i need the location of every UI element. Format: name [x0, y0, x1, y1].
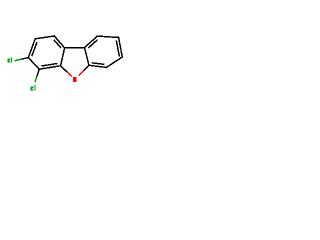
wire bond C2-C3 left ring top edge: [35, 36, 54, 39]
wire bond C5-Cl carbon half (black): [37, 69, 39, 76]
wire bond C4b-O carbon half (black): [61, 66, 67, 72]
wire bond C8=C9 inner double-bond line: [116, 40, 119, 56]
wire bond C10a-C6a right ring left edge: [85, 48, 89, 66]
wire bond C3=C4a inner double-bond line: [54, 40, 61, 48]
wire bond C6a-C7 right ring upper-left edge (outer line of double bond): [85, 36, 98, 48]
wire bond C10=C10a inner double-bond line: [92, 63, 105, 65]
wire bond C1-C2 left ring upper-left edge (outer line of double bond): [28, 39, 35, 58]
wire bond C4a-C4b left ring right edge: [61, 48, 65, 66]
wire bond C4b-C5 left ring bottom edge (outer line of double bond): [39, 66, 60, 69]
node O furan oxygen atom label (solid red blob): [73, 77, 77, 82]
wire bond C5-Cl chlorine half (green): [35, 77, 37, 82]
wire bond C1-Cl carbon half (black): [21, 58, 28, 60]
node Cl chlorine atom label on C1 (left), letter C: [7, 59, 10, 63]
wire bond C4a-C6a biaryl bond (furan ring top edge): [65, 47, 85, 49]
wire bond C5-C1 left ring lower-left edge: [28, 58, 39, 70]
wire bond C6a=C7 inner double-bond line: [88, 40, 97, 48]
wire bond C8-C9 right ring right edge (outer line of double bond): [119, 38, 123, 58]
wire bond C10-C10a right ring bottom edge (outer line of double bond): [89, 65, 107, 67]
node Cl chlorine atom label on C1 (left), letter l: [11, 57, 12, 62]
wire bond C4b-O oxygen half (red): [67, 72, 72, 77]
wire bond C9-C10 right ring lower-right edge: [106, 57, 122, 67]
node Cl chlorine atom label on C5 (bottom), letter l: [34, 85, 35, 91]
wire bond C1-Cl chlorine half (green): [15, 59, 22, 61]
wire bond C3-C4a left ring upper-right edge (outer line of double bond): [54, 36, 64, 48]
wire bond C1=C2 inner double-bond line: [32, 42, 37, 56]
node Cl chlorine atom label on C5 (bottom), letter C: [30, 87, 33, 91]
chemical structure diagram: 3,4-dichlorodibenzofuran: [0, 0, 130, 130]
wire bond C4b=C5 inner double-bond line: [41, 63, 57, 66]
wire bond C10a-O oxygen half (red): [79, 70, 84, 75]
wire bond C7-C8 right ring top edge: [97, 36, 118, 37]
wire bond C10a-O carbon half (black): [84, 65, 89, 70]
